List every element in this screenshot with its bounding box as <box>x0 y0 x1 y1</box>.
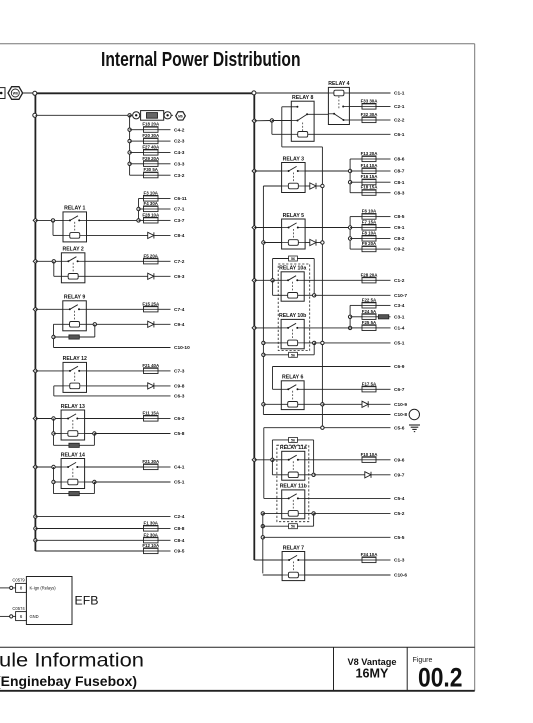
svg-text:C4-2: C4-2 <box>174 127 185 133</box>
svg-text:RELAY 14: RELAY 14 <box>61 452 85 458</box>
svg-text:F15 25A: F15 25A <box>142 301 160 306</box>
svg-text:C3-1: C3-1 <box>394 314 405 320</box>
svg-text:F8 10A: F8 10A <box>362 231 377 236</box>
svg-text:RELAY 6: RELAY 6 <box>282 375 303 381</box>
svg-text:RELAY 11b: RELAY 11b <box>280 484 307 490</box>
svg-text:C8-1: C8-1 <box>394 180 405 186</box>
svg-text:M6: M6 <box>178 114 183 118</box>
svg-text:F10 10A: F10 10A <box>361 452 379 457</box>
svg-text:C8-4: C8-4 <box>174 538 185 544</box>
svg-text:F29 20A: F29 20A <box>142 156 160 161</box>
svg-text:C4-3: C4-3 <box>174 150 185 156</box>
svg-text:56: 56 <box>291 353 295 357</box>
svg-text:C5-6: C5-6 <box>394 425 405 431</box>
svg-text:F7 15A: F7 15A <box>362 220 377 225</box>
svg-text:F17 5A: F17 5A <box>362 381 377 386</box>
svg-text:RELAY 10a: RELAY 10a <box>279 266 306 272</box>
svg-text:C1-2: C1-2 <box>394 278 405 284</box>
svg-text:C2-2: C2-2 <box>394 118 405 124</box>
svg-text:C10-6: C10-6 <box>394 573 407 579</box>
svg-text:F1 30A: F1 30A <box>144 521 159 526</box>
svg-text:RELAY 3: RELAY 3 <box>283 156 304 162</box>
svg-text:C0574: C0574 <box>12 606 25 611</box>
svg-text:F6 10A: F6 10A <box>362 209 377 214</box>
svg-text:C2-1: C2-1 <box>394 104 405 110</box>
svg-text:C7-1: C7-1 <box>174 207 185 213</box>
svg-text:F25 5A: F25 5A <box>362 320 377 325</box>
svg-text:F13 20A: F13 20A <box>361 151 379 156</box>
svg-text:EFB: EFB <box>75 593 99 607</box>
svg-text:F28 20A: F28 20A <box>361 272 379 277</box>
svg-text:8: 8 <box>20 586 23 591</box>
svg-text:C9-8: C9-8 <box>174 384 185 390</box>
svg-text:F33 30A: F33 30A <box>361 99 379 104</box>
svg-text:C10-7: C10-7 <box>394 293 407 299</box>
svg-text:C8-2: C8-2 <box>394 236 405 242</box>
svg-text:C2-3: C2-3 <box>174 139 185 145</box>
svg-text:C8-4: C8-4 <box>174 233 185 239</box>
svg-text:C5-1: C5-1 <box>174 480 185 486</box>
svg-text:56: 56 <box>291 257 295 261</box>
svg-text:RELAY 1: RELAY 1 <box>64 206 85 212</box>
svg-text:F11 15A: F11 15A <box>142 411 159 416</box>
svg-text:C6-1: C6-1 <box>394 132 405 138</box>
svg-text:F32 30A: F32 30A <box>361 112 379 117</box>
svg-text:RELAY 12: RELAY 12 <box>63 356 87 362</box>
svg-text:RELAY 8: RELAY 8 <box>292 95 313 101</box>
svg-text:C5-5: C5-5 <box>394 535 405 541</box>
svg-text:C2-4: C2-4 <box>174 514 185 520</box>
svg-text:W6: W6 <box>13 91 18 95</box>
svg-text:F18 20A: F18 20A <box>142 122 160 127</box>
svg-text:F20 30A: F20 30A <box>142 133 160 138</box>
svg-text:F14 10A: F14 10A <box>361 163 379 168</box>
svg-text:C5-1: C5-1 <box>394 341 405 347</box>
svg-text:GND: GND <box>30 614 39 619</box>
svg-text:F21 30A: F21 30A <box>142 459 160 464</box>
svg-text:C9-1: C9-1 <box>394 225 405 231</box>
svg-text:C6-2: C6-2 <box>174 416 185 422</box>
svg-text:C10-9: C10-9 <box>394 402 407 408</box>
svg-text:F2 30A: F2 30A <box>144 532 159 537</box>
svg-text:16MY: 16MY <box>356 666 389 680</box>
svg-text:56: 56 <box>291 525 295 529</box>
svg-text:F18 15A: F18 15A <box>361 185 379 190</box>
svg-text:F21 40A: F21 40A <box>142 363 160 368</box>
svg-text:F3 10A: F3 10A <box>144 191 159 196</box>
svg-text:RELAY 7: RELAY 7 <box>283 545 304 551</box>
svg-text:C5-8: C5-8 <box>174 431 185 437</box>
svg-text:RELAY 11a: RELAY 11a <box>280 445 307 451</box>
svg-text:C4-1: C4-1 <box>174 465 185 471</box>
svg-text:C9-7: C9-7 <box>394 472 405 478</box>
svg-text:(Enginebay Fusebox): (Enginebay Fusebox) <box>0 673 137 689</box>
svg-text:RELAY 9: RELAY 9 <box>64 295 85 301</box>
svg-text:F12 10A: F12 10A <box>142 543 160 548</box>
svg-text:C6-7: C6-7 <box>394 387 405 393</box>
svg-text:C6-9: C6-9 <box>394 364 405 370</box>
svg-text:C7-2: C7-2 <box>174 259 185 265</box>
svg-text:C6-11: C6-11 <box>174 196 187 202</box>
svg-text:K-Ign (Relays): K-Ign (Relays) <box>30 586 57 591</box>
svg-text:C3-7: C3-7 <box>174 218 185 224</box>
svg-text:F27 40A: F27 40A <box>142 145 160 150</box>
svg-text:6: 6 <box>20 614 23 619</box>
svg-text:00.2: 00.2 <box>418 662 463 692</box>
svg-text:C8-6: C8-6 <box>394 157 405 163</box>
svg-text:C8-5: C8-5 <box>394 214 405 220</box>
svg-text:F4 30A: F4 30A <box>144 201 159 206</box>
svg-text:F5 20A: F5 20A <box>144 253 159 258</box>
svg-text:C9-5: C9-5 <box>174 549 185 555</box>
svg-text:F30 5A: F30 5A <box>144 167 159 172</box>
svg-text:C7-3: C7-3 <box>174 369 185 375</box>
svg-text:C0579: C0579 <box>12 578 25 583</box>
svg-text:C10-8: C10-8 <box>394 412 407 418</box>
svg-text:C8-7: C8-7 <box>394 169 405 175</box>
svg-text:C8-8: C8-8 <box>174 526 185 532</box>
svg-text:F24 5A: F24 5A <box>362 309 377 314</box>
svg-text:F22 5A: F22 5A <box>362 297 377 302</box>
svg-text:C3-4: C3-4 <box>394 303 405 309</box>
svg-text:C9-2: C9-2 <box>394 247 405 253</box>
svg-text:F34 10A: F34 10A <box>361 552 379 557</box>
svg-text:RELAY 10b: RELAY 10b <box>279 313 306 319</box>
svg-text:C1-4: C1-4 <box>394 326 405 332</box>
svg-text:C9-4: C9-4 <box>174 322 185 328</box>
svg-text:ule Information: ule Information <box>0 650 144 672</box>
svg-text:F9 20A: F9 20A <box>362 241 377 246</box>
svg-text:C5-2: C5-2 <box>394 511 405 517</box>
svg-text:RELAY 5: RELAY 5 <box>283 213 304 219</box>
svg-text:C1-1: C1-1 <box>394 91 405 97</box>
svg-text:C7-4: C7-4 <box>174 307 185 313</box>
svg-text:C8-3: C8-3 <box>394 190 405 196</box>
svg-text:C3-3: C3-3 <box>174 161 185 167</box>
svg-text:C5-4: C5-4 <box>394 496 405 502</box>
svg-text:F16 15A: F16 15A <box>361 174 379 179</box>
svg-text:C9-6: C9-6 <box>394 457 405 463</box>
svg-text:C9-3: C9-3 <box>174 274 185 280</box>
svg-text:C1-3: C1-3 <box>394 558 405 564</box>
svg-text:C6-3: C6-3 <box>174 394 185 400</box>
svg-text:RELAY 13: RELAY 13 <box>61 404 85 410</box>
svg-text:Internal Power Distribution: Internal Power Distribution <box>101 49 301 71</box>
svg-text:56: 56 <box>291 438 295 442</box>
svg-text:C10-10: C10-10 <box>174 345 190 351</box>
svg-text:RELAY 4: RELAY 4 <box>328 81 349 87</box>
svg-text:C3-2: C3-2 <box>174 173 185 179</box>
svg-text:F28 10A: F28 10A <box>142 212 160 217</box>
svg-text:RELAY 2: RELAY 2 <box>62 247 83 253</box>
